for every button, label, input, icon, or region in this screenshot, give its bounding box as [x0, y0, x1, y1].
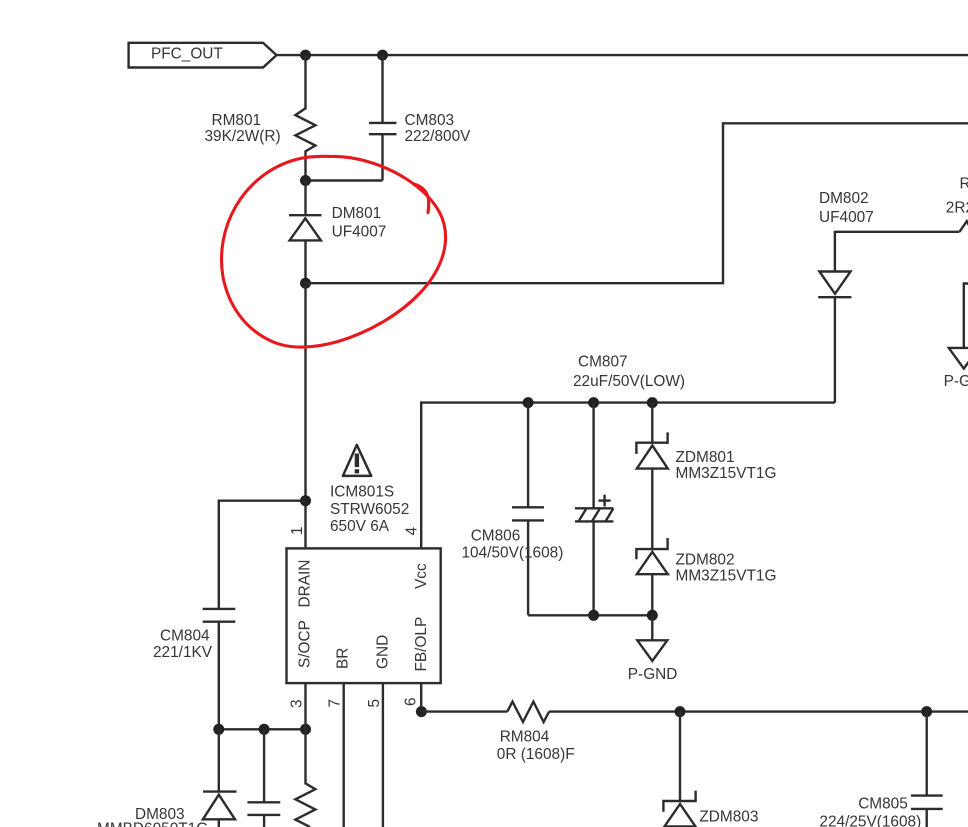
svg-text:DRAIN: DRAIN	[297, 560, 314, 608]
junction pin6 node	[416, 706, 427, 717]
zener ZDM802	[636, 538, 776, 615]
junction row dot right	[300, 724, 311, 735]
junction CM803 top	[377, 50, 388, 61]
svg-text:STRW6052: STRW6052	[330, 501, 409, 518]
svg-text:22uF/50V(LOW): 22uF/50V(LOW)	[573, 373, 685, 390]
wire P-GND row	[528, 614, 652, 616]
svg-text:224/25V(1608): 224/25V(1608)	[819, 814, 921, 827]
svg-text:4: 4	[404, 527, 421, 536]
wire pin5	[382, 683, 384, 827]
svg-text:RM801: RM801	[212, 112, 262, 129]
junction ZDM801 top	[647, 397, 658, 408]
resistor RM804	[497, 702, 575, 763]
svg-text:UF4007: UF4007	[819, 209, 874, 226]
svg-text:DM801: DM801	[332, 205, 382, 222]
svg-text:P-GND: P-GND	[628, 666, 678, 683]
svg-text:GND: GND	[375, 635, 392, 669]
junction CM804 tap	[300, 495, 311, 506]
svg-text:MM3Z15VT1G: MM3Z15VT1G	[676, 465, 777, 482]
wire DRAIN vertical	[304, 283, 306, 548]
svg-text:BR: BR	[335, 648, 352, 669]
resistor RM801	[205, 55, 316, 180]
svg-text:P-GND: P-GND	[944, 373, 968, 390]
node PFC_OUT	[129, 43, 277, 68]
svg-text:7: 7	[327, 699, 344, 708]
capacitor CM806	[462, 403, 564, 616]
svg-text:MM3Z15VT1G: MM3Z15VT1G	[676, 568, 777, 585]
zener ZDM801	[636, 403, 776, 482]
capacitor CM805	[819, 712, 942, 827]
svg-text:ZDM802: ZDM802	[676, 552, 735, 569]
diode DM801	[289, 181, 386, 284]
svg-text:5: 5	[366, 699, 383, 708]
wire DM802 anode	[835, 232, 960, 272]
junction DM801 anode node	[300, 278, 311, 289]
wire pin6	[420, 683, 422, 712]
wire S/OCP node row	[219, 728, 306, 730]
svg-text:RM805: RM805	[960, 176, 968, 193]
svg-text:UF4007: UF4007	[332, 224, 387, 241]
diode DM803	[97, 729, 237, 827]
junction CM805 tap	[921, 706, 932, 717]
svg-text:DM802: DM802	[819, 190, 869, 207]
svg-text:Vcc: Vcc	[413, 563, 430, 589]
svg-text:CM804: CM804	[160, 628, 210, 645]
wire FB/OLP row right	[549, 710, 968, 712]
wire RM801-CM803 bottom	[306, 179, 383, 181]
svg-text:6: 6	[403, 697, 420, 706]
capacitor CM804	[153, 609, 235, 729]
IC labels	[330, 484, 409, 536]
svg-text:221/1KV: 221/1KV	[153, 644, 213, 661]
junction row dot left	[213, 724, 224, 735]
svg-text:CM803: CM803	[405, 112, 455, 129]
svg-text:0R (1608)F: 0R (1608)F	[497, 746, 575, 763]
junction row dot mid	[259, 724, 270, 735]
wire pin7	[343, 683, 345, 827]
svg-text:RM804: RM804	[500, 728, 550, 745]
junction CM807 top	[588, 397, 599, 408]
ground P-GND	[628, 615, 678, 683]
junction ZDM803 tap	[675, 706, 686, 717]
svg-text:ICM801S: ICM801S	[330, 484, 394, 501]
svg-text:1: 1	[289, 526, 306, 535]
annotation red circle	[222, 156, 446, 347]
svg-text:ZDM801: ZDM801	[676, 449, 735, 466]
junction CM806 top	[523, 397, 534, 408]
junction P-GND row right	[647, 610, 658, 621]
wire FB/OLP row left	[421, 710, 507, 712]
resistor RM805 (partial at edge)	[946, 176, 968, 232]
wire DM801 anode to upper-right rail	[306, 123, 968, 283]
junction DM801 cathode node	[300, 175, 311, 186]
svg-text:3: 3	[289, 699, 306, 708]
svg-text:222/800V: 222/800V	[405, 128, 472, 145]
wire PFC_OUT rail	[277, 54, 968, 56]
ground P-GND right edge	[944, 284, 968, 390]
capacitor CM807 polarized	[573, 354, 685, 616]
junction RM801 top	[300, 50, 311, 61]
diode DM802	[818, 190, 874, 403]
svg-text:650V 6A: 650V 6A	[330, 518, 390, 535]
svg-text:CM806: CM806	[471, 528, 521, 545]
svg-text:MMBD6050T1G: MMBD6050T1G	[97, 821, 208, 827]
wire CM804 tap	[219, 501, 306, 609]
svg-text:39K/2W(R): 39K/2W(R)	[205, 128, 281, 145]
svg-text:ZDM803: ZDM803	[699, 809, 758, 826]
warning symbol	[343, 445, 371, 476]
zener ZDM803	[663, 712, 758, 827]
svg-text:CM805: CM805	[858, 796, 908, 813]
capacitor CM808	[247, 729, 280, 827]
svg-text:S/OCP: S/OCP	[297, 620, 314, 668]
wire zener chain	[651, 469, 653, 549]
op-amp U1 / IC ICM801S box	[287, 548, 441, 683]
svg-text:2R2(1608): 2R2(1608)	[946, 200, 968, 217]
wire pin3	[304, 683, 306, 729]
wire Vcc rail	[421, 403, 835, 549]
svg-text:FB/OLP: FB/OLP	[413, 617, 430, 672]
svg-text:CM807: CM807	[578, 354, 628, 371]
resistor RM802	[295, 729, 315, 827]
svg-text:104/50V(1608): 104/50V(1608)	[462, 545, 564, 562]
svg-text:PFC_OUT: PFC_OUT	[151, 46, 223, 63]
junction P-GND row left	[588, 610, 599, 621]
capacitor CM803	[369, 55, 471, 180]
